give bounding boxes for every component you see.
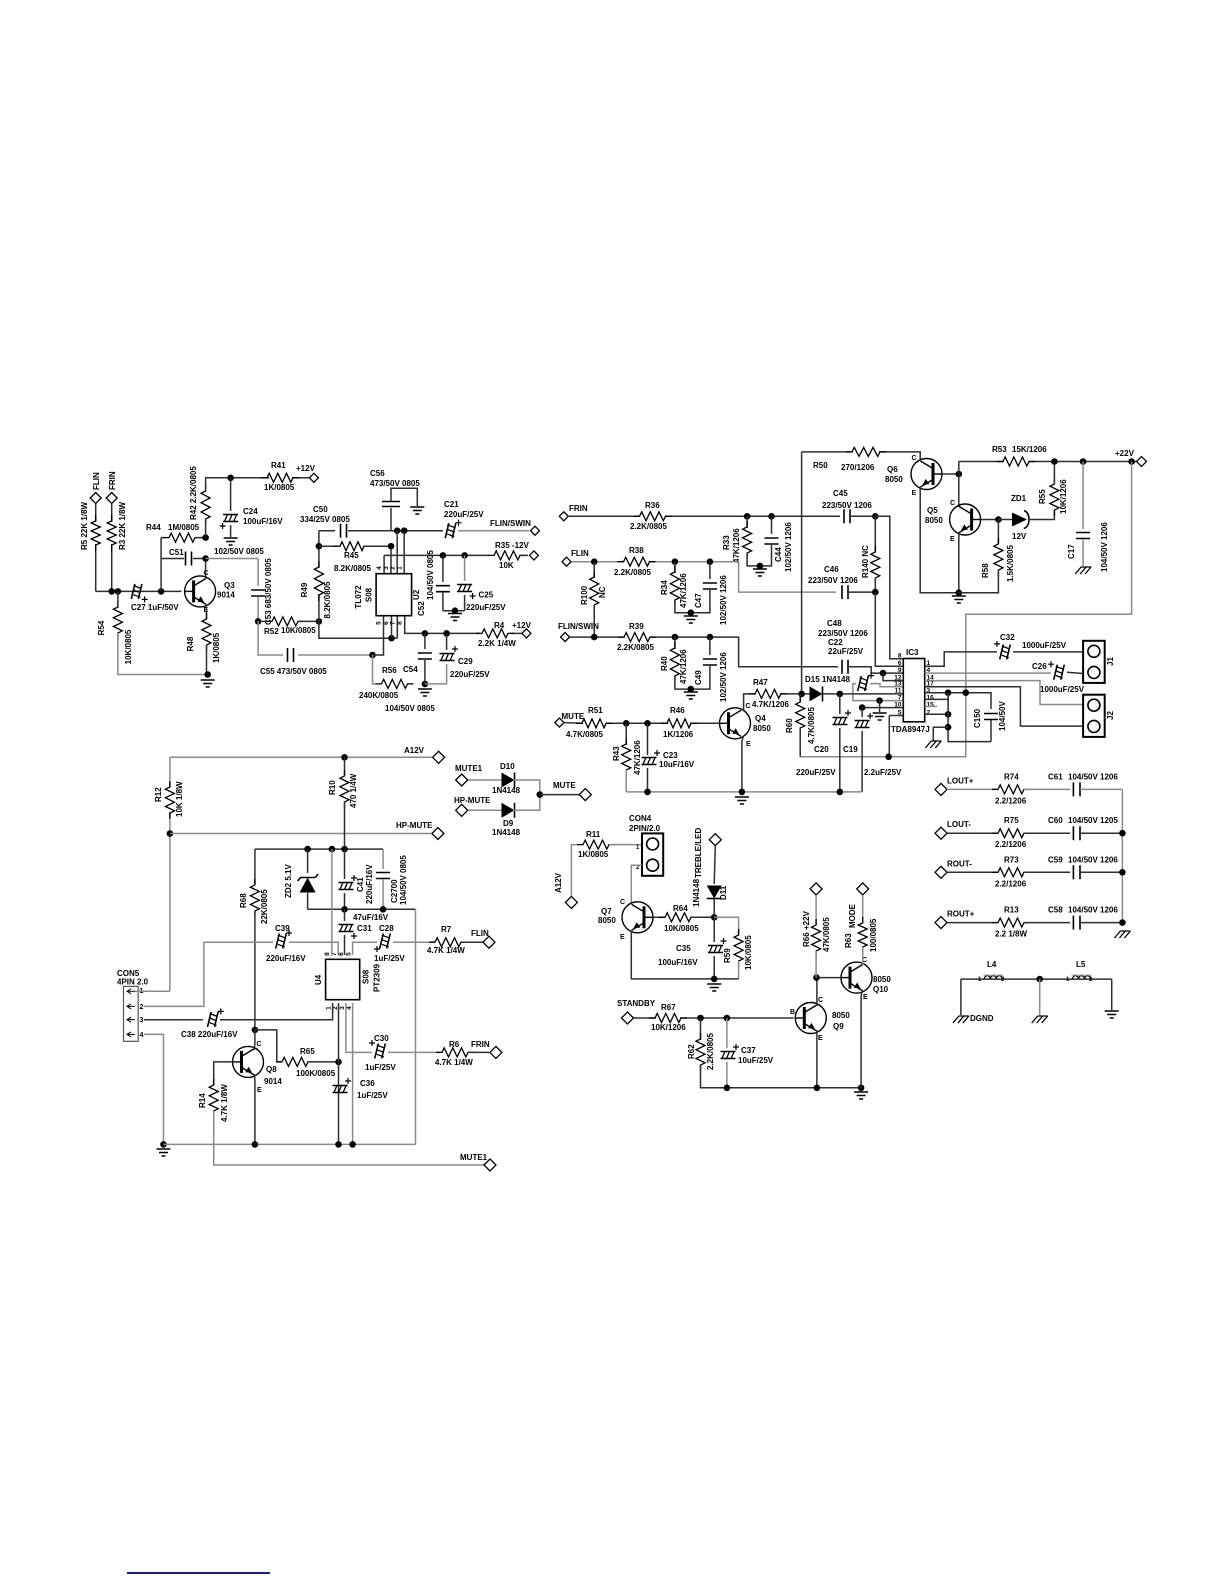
wire R100 bottom (593, 605, 595, 637)
resistor R6 (436, 1048, 474, 1057)
wire D9 to MUTE node (513, 795, 540, 811)
resistor R36 (634, 512, 672, 521)
wire -12V rail (384, 554, 489, 556)
svg-text:223/50V 1206: 223/50V 1206 (822, 501, 872, 510)
node R10 top (341, 754, 348, 761)
capacitor C52 (442, 555, 444, 582)
svg-text:C20: C20 (814, 745, 829, 754)
svg-text:1N4148: 1N4148 (492, 786, 521, 795)
wire C24 leg (230, 478, 232, 511)
terminal +12V (309, 473, 318, 482)
ground L4/L5 center (1032, 1016, 1048, 1023)
resistor R67 (649, 1014, 687, 1023)
svg-text:47K/1206: 47K/1206 (633, 740, 642, 775)
svg-text:2.2K/0805: 2.2K/0805 (617, 643, 654, 652)
svg-text:MODE: MODE (848, 903, 857, 928)
ground C52/C25 (448, 614, 462, 621)
wire U2 pin risers (383, 555, 385, 573)
svg-text:NC: NC (598, 586, 607, 598)
node R52 left (255, 618, 262, 625)
svg-text:1uF/25V: 1uF/25V (357, 1091, 388, 1100)
node bus ROUT+ (1119, 919, 1126, 926)
svg-text:HP-MUTE: HP-MUTE (396, 821, 433, 830)
svg-text:R38: R38 (629, 546, 644, 555)
svg-text:E: E (257, 1087, 262, 1094)
wire pin2 tie (925, 713, 948, 715)
node pin3 +22V (963, 689, 970, 696)
transistor Q3 9014 (185, 576, 216, 607)
svg-text:8: 8 (898, 653, 902, 660)
capacitor C32 (1000, 644, 1011, 659)
wire C31 to pin6 (344, 935, 346, 955)
wire R66 bottom (815, 951, 817, 978)
transistor Q5 8050 (950, 504, 981, 535)
node R54 junction (115, 588, 122, 595)
node C54 top (422, 630, 429, 637)
svg-text:U4: U4 (314, 974, 323, 985)
wire output common bus (1121, 789, 1123, 922)
resistor R39 (618, 633, 656, 642)
svg-text:C52: C52 (417, 601, 426, 616)
svg-text:MUTE: MUTE (553, 781, 576, 790)
wire R33 C44 to ground (747, 545, 771, 566)
wire Q7 base (653, 916, 664, 918)
svg-text:10K/0805: 10K/0805 (744, 935, 753, 970)
svg-text:R14: R14 (198, 1093, 207, 1108)
svg-text:R53: R53 (992, 445, 1007, 454)
resistor R74 (992, 785, 1030, 794)
node Q5 base ZD1 (995, 516, 1002, 523)
wire C17 to ground (1082, 539, 1084, 566)
wire Q9 collector (816, 978, 818, 1006)
IC3 TDA8947J box (903, 659, 924, 722)
capacitor C37 (726, 1018, 728, 1048)
ground Q7 (707, 984, 721, 991)
svg-text:R140 NC: R140 NC (861, 545, 870, 578)
node emitter ground junction (204, 671, 211, 678)
svg-text:4.7K/0805: 4.7K/0805 (566, 730, 603, 739)
terminal HP-MUTE top (456, 804, 468, 816)
wire FLIN/SWIN rail (570, 636, 625, 638)
svg-text:2.2K/0805: 2.2K/0805 (706, 1033, 715, 1070)
wire MUTE out (540, 794, 579, 796)
diode D10 1N4148 (468, 779, 502, 781)
svg-text:2PIN/2.0: 2PIN/2.0 (629, 824, 661, 833)
node pin2 tie (945, 711, 952, 718)
svg-text:R54: R54 (97, 620, 106, 635)
svg-text:S08: S08 (362, 969, 371, 984)
wire CON5 pin3 row (144, 1019, 203, 1021)
svg-text:MUTE1: MUTE1 (460, 1153, 488, 1162)
node C20 bottom (837, 789, 844, 796)
terminal FRIN amp (559, 512, 568, 521)
node R100 top (591, 558, 598, 565)
svg-text:PT2309: PT2309 (373, 963, 382, 992)
terminal FLIN amp (562, 557, 571, 566)
svg-text:C28: C28 (379, 924, 394, 933)
resistor R56 (376, 679, 414, 688)
svg-text:C39: C39 (275, 924, 290, 933)
svg-text:LOUT-: LOUT- (947, 820, 971, 829)
node pin7 ground (876, 697, 883, 704)
svg-text:10K/0805: 10K/0805 (124, 629, 133, 664)
node R43 top (623, 720, 630, 727)
wire CON4 pin2 to Q7 (631, 865, 642, 903)
svg-text:104/50V 0805: 104/50V 0805 (426, 550, 435, 600)
wire right leg down (415, 1052, 417, 1144)
node base junction (158, 588, 165, 595)
node C51 right (202, 555, 209, 562)
svg-text:47uF/16V: 47uF/16V (353, 913, 389, 922)
node C20 top (837, 691, 844, 698)
wire Q3 emitter (205, 604, 208, 620)
svg-text:334/25V 0805: 334/25V 0805 (300, 515, 350, 524)
node amp ground (956, 589, 963, 596)
wire R73 to C59 (1024, 871, 1070, 873)
svg-text:C24: C24 (243, 507, 258, 516)
wire Q9 emitter (816, 1030, 818, 1088)
node C24 junction (227, 475, 234, 482)
svg-text:C58: C58 (1048, 906, 1063, 915)
wire D11 to R64 node (713, 897, 715, 917)
svg-text:R65: R65 (300, 1047, 315, 1056)
terminal FLIN/SWIN (531, 526, 540, 535)
svg-text:8050: 8050 (598, 916, 616, 925)
capacitor C30 (375, 1044, 386, 1059)
node C17 rail (1080, 458, 1087, 465)
wire Q6 base (942, 473, 959, 475)
wire C58 right (1080, 922, 1122, 924)
wire pin1 to C32 (925, 652, 997, 666)
node Q10 emitter gnd (858, 1085, 865, 1092)
resistor R7 (429, 938, 467, 947)
svg-text:1K/0805: 1K/0805 (264, 483, 295, 492)
wire R14 to MUTE1 (214, 1111, 484, 1165)
svg-text:U2: U2 (412, 589, 421, 600)
svg-text:R35 -12V: R35 -12V (495, 541, 529, 550)
transistor Q8 9014 (233, 1046, 264, 1077)
svg-text:L5: L5 (1076, 960, 1086, 969)
svg-text:C46: C46 (824, 565, 839, 574)
wire CON5 pin2 (144, 991, 204, 1006)
resistor R46 (661, 719, 697, 728)
svg-text:S08: S08 (365, 587, 374, 602)
node U4 pin8 riser top (329, 846, 336, 853)
svg-text:E: E (863, 994, 868, 1001)
svg-text:R43: R43 (612, 746, 621, 761)
wire Q10 base (817, 977, 842, 979)
capacitor C49 (709, 637, 711, 655)
wire right leg to FRIN row (415, 909, 417, 1052)
wire R75 to C60 (1024, 832, 1070, 834)
capacitor C59 (1073, 865, 1080, 879)
capacitor C23 (647, 723, 649, 755)
wire C59 right (1080, 871, 1122, 873)
terminal HP-MUTE (432, 828, 444, 840)
svg-text:D10: D10 (500, 762, 515, 771)
svg-text:E: E (912, 490, 917, 497)
wire R12 leg (169, 757, 171, 788)
capacitor C48/C22 (842, 660, 848, 674)
wire ROUT+ row (947, 922, 997, 924)
svg-text:B: B (790, 1009, 795, 1016)
capacitor C28 (353, 942, 377, 955)
svg-text:C23: C23 (663, 751, 678, 760)
node C23 gnd (644, 789, 651, 796)
wire left vert C50 (318, 531, 320, 568)
wire ZD2 top rail (255, 848, 383, 850)
svg-text:4.7K/1206: 4.7K/1206 (752, 700, 789, 709)
svg-text:R56: R56 (382, 666, 397, 675)
wire Q5 base (981, 519, 999, 521)
node bus LOUT- (1119, 830, 1126, 837)
node pin5 +22V (885, 754, 892, 761)
capacitor C20 (839, 694, 841, 714)
capacitor C27 (131, 584, 142, 599)
node C41 top (341, 846, 348, 853)
svg-text:R33: R33 (722, 535, 731, 550)
wire C61 right (1080, 788, 1122, 790)
svg-text:D11: D11 (719, 885, 728, 900)
svg-text:8050: 8050 (753, 724, 771, 733)
svg-text:473/50V 0805: 473/50V 0805 (370, 479, 420, 488)
wire C39 row (204, 942, 273, 991)
svg-text:104/50V 1206: 104/50V 1206 (1068, 855, 1118, 864)
ground DGND (953, 1016, 969, 1023)
wire R50 rail (802, 451, 853, 453)
svg-text:C45: C45 (833, 489, 848, 498)
svg-text:C41: C41 (356, 877, 365, 892)
node Q8 collector junction (252, 1027, 259, 1034)
wire +22V riser (958, 462, 960, 475)
wire pin5 down (373, 616, 384, 655)
svg-text:E: E (746, 741, 751, 748)
footer rule (127, 1572, 270, 1574)
node C45 right (872, 513, 879, 520)
resistor R47 (749, 689, 787, 698)
svg-text:104/50V 0805: 104/50V 0805 (399, 855, 408, 905)
svg-text:12V: 12V (1012, 532, 1027, 541)
svg-text:R48: R48 (186, 636, 195, 651)
wire C23 bottom (647, 768, 649, 792)
svg-text:220uF/25V: 220uF/25V (796, 768, 836, 777)
svg-text:47K/1206: 47K/1206 (732, 528, 741, 563)
wire DGND leg (960, 979, 962, 1015)
svg-text:22uF/25V: 22uF/25V (828, 647, 864, 656)
svg-text:R67: R67 (661, 1003, 676, 1012)
terminal FRIN out (468, 1051, 489, 1053)
capacitor C150 (984, 714, 998, 720)
capacitor near pin13 (870, 684, 903, 687)
wire R40 C49 ground (675, 666, 710, 689)
capacitor C46 (842, 585, 848, 599)
wire R140 bottom (874, 578, 876, 592)
wire Q5 emitter (958, 532, 960, 593)
svg-text:R45: R45 (344, 551, 359, 560)
wire R42 to +12V rail (206, 478, 269, 491)
wire R65 right (308, 1061, 339, 1063)
resistor R44 (161, 537, 166, 539)
svg-text:IC3: IC3 (906, 648, 919, 657)
wire C46 junction to pin6 (875, 592, 903, 666)
ground Q9/Q10 (854, 1092, 868, 1099)
wire ZD2 bottom rail (308, 908, 416, 910)
wire D10 to MUTE node (513, 780, 540, 795)
wire R48 to ground (206, 645, 208, 675)
svg-text:C48: C48 (827, 619, 842, 628)
transistor Q6 8050 (911, 459, 942, 490)
svg-text:E: E (950, 536, 955, 543)
terminal +22V (1137, 457, 1147, 467)
svg-text:C: C (912, 455, 917, 462)
svg-text:R39: R39 (629, 622, 644, 631)
resistor R64 (659, 913, 697, 922)
svg-text:C25: C25 (479, 591, 494, 600)
node pin4 gnd (349, 1141, 356, 1148)
svg-text:270/1206: 270/1206 (841, 463, 875, 472)
svg-text:C36: C36 (360, 1079, 375, 1088)
svg-text:FLIN: FLIN (92, 472, 101, 490)
svg-text:8.2K/0805: 8.2K/0805 (323, 581, 332, 618)
node R42 bottom (202, 534, 209, 541)
svg-text:1uF/25V: 1uF/25V (365, 1063, 396, 1072)
capacitor C56 (390, 508, 392, 531)
resistor R54 (113, 601, 122, 639)
resistor R50 (846, 447, 886, 456)
svg-text:FRIN: FRIN (108, 471, 117, 490)
capacitor C25 (464, 555, 466, 581)
svg-text:3: 3 (339, 1006, 346, 1010)
svg-text:R5 22K 1/8W: R5 22K 1/8W (80, 502, 89, 550)
resistor R35 (488, 551, 526, 560)
svg-text:104/50V 1206: 104/50V 1206 (1068, 772, 1118, 781)
svg-text:47K/0805: 47K/0805 (822, 917, 831, 952)
wire U4 pin2 down (338, 1003, 340, 1144)
wire R56 left leg (373, 655, 377, 684)
svg-text:2.2uF/25V: 2.2uF/25V (864, 768, 902, 777)
wire pin5 bend (889, 715, 903, 717)
wire Q3 collector (205, 559, 207, 580)
svg-text:R63: R63 (844, 933, 853, 948)
svg-text:10K/1206: 10K/1206 (1059, 479, 1068, 514)
svg-text:5: 5 (898, 709, 902, 716)
svg-text:R68: R68 (239, 893, 248, 908)
svg-text:ZD2 5.1V: ZD2 5.1V (284, 864, 293, 898)
svg-text:FLIN/SWIN: FLIN/SWIN (490, 519, 531, 528)
terminal -12V (529, 551, 538, 560)
node R45 left (316, 543, 323, 550)
capacitor C44 (771, 516, 773, 534)
ground C56 (410, 507, 424, 514)
svg-text:102/50V 1206: 102/50V 1206 (719, 575, 728, 625)
svg-text:R40: R40 (660, 656, 669, 671)
svg-text:E: E (818, 1035, 823, 1042)
wire gnd branch (933, 727, 948, 741)
svg-text:100K/0805: 100K/0805 (296, 1069, 336, 1078)
svg-text:C31: C31 (357, 924, 372, 933)
inductor L5 (1073, 976, 1091, 979)
wire pin10 line (862, 707, 903, 709)
svg-text:47K/1206: 47K/1206 (679, 573, 688, 608)
svg-text:HP-MUTE: HP-MUTE (454, 796, 491, 805)
node R40 top (672, 634, 679, 641)
svg-text:R64: R64 (673, 904, 688, 913)
svg-text:C21: C21 (444, 500, 459, 509)
node C47 top (707, 558, 714, 565)
svg-text:R60: R60 (785, 718, 794, 733)
svg-text:220uF/25V: 220uF/25V (466, 603, 506, 612)
wire C53 to R52 (257, 597, 259, 621)
terminal MUTE1 out (484, 1159, 496, 1171)
wire ZD1 to R55 (1028, 511, 1054, 520)
capacitor C19 (861, 708, 863, 717)
svg-text:D9: D9 (503, 819, 514, 828)
capacitor C54 (424, 633, 426, 649)
svg-text:+12V: +12V (512, 621, 532, 630)
svg-text:10K/0805: 10K/0805 (281, 626, 316, 635)
svg-text:R41: R41 (271, 461, 286, 470)
wire ROUT- row (947, 871, 997, 873)
diode D15 1N4148 (810, 686, 823, 701)
wire R63 to Q10 collector (862, 947, 864, 964)
svg-text:4PIN 2.0: 4PIN 2.0 (117, 978, 149, 987)
wire C55 to R56/pin5 (298, 654, 373, 656)
svg-text:470 1/4W: 470 1/4W (349, 773, 358, 808)
wire R44/C51 left leg (160, 538, 162, 592)
capacitor C47 (709, 562, 711, 579)
svg-text:C38 220uF/16V: C38 220uF/16V (181, 1030, 238, 1039)
wire base rail (96, 590, 182, 592)
connector CON4 (642, 833, 663, 875)
svg-text:L4: L4 (987, 960, 997, 969)
svg-text:R50: R50 (813, 461, 828, 470)
svg-text:R46: R46 (670, 706, 685, 715)
wire R43 bottom (625, 770, 627, 792)
wire R54 to ground rail (117, 591, 119, 608)
resistor R100 NC (593, 562, 595, 578)
svg-text:C: C (620, 899, 625, 906)
svg-text:ROUT+: ROUT+ (947, 910, 975, 919)
svg-text:8: 8 (397, 621, 404, 625)
terminal A12V (433, 751, 445, 763)
transistor Q4 8050 (720, 708, 751, 739)
wire Q8 base (214, 1062, 233, 1085)
wire C50 right to C21 (348, 530, 443, 532)
svg-text:2.2/1206: 2.2/1206 (995, 796, 1027, 805)
wire U2 pin6 (391, 616, 393, 639)
ground output bus (1114, 931, 1130, 938)
svg-text:TDA8947J: TDA8947J (891, 725, 930, 734)
wire Q8 collector (253, 1030, 256, 1050)
svg-text:2.2K 1/4W: 2.2K 1/4W (478, 639, 516, 648)
svg-text:104/50V 0805: 104/50V 0805 (385, 704, 435, 713)
resistor R4 (476, 629, 514, 638)
resistor R49 (314, 561, 323, 601)
wire +22V rail (959, 461, 1004, 463)
zener ZD2 5.1V (307, 849, 309, 873)
svg-text:9014: 9014 (264, 1077, 282, 1086)
node R40 gnd (688, 686, 695, 693)
wire FRIN input line (111, 504, 113, 522)
wire Q8 collector branch to R65 (255, 1030, 281, 1062)
svg-text:1M/0805: 1M/0805 (168, 523, 200, 532)
node Q6 base (956, 471, 963, 478)
capacitor C53 (257, 559, 259, 587)
svg-text:C: C (746, 703, 751, 710)
terminal FLIN out (461, 941, 483, 943)
node R56 right ground (422, 681, 429, 688)
wire U4 pin4 down (352, 1003, 354, 1144)
